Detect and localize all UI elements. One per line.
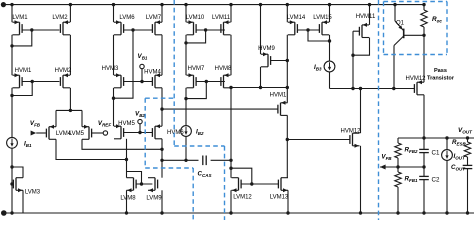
wire HVM7 drain to IB2 — [185, 99, 187, 126]
boundary Q1 box top — [384, 1, 448, 3]
wire LVM3 drain loop — [10, 165, 23, 177]
transistor LVM10 — [186, 15, 205, 35]
wire LVM4 source — [55, 110, 57, 126]
wire HVM6 source — [161, 109, 163, 126]
wire Q1 emitter — [394, 5, 396, 21]
wire LVM8 source to gnd — [125, 190, 128, 214]
svg-text:LVM9: LVM9 — [146, 196, 162, 202]
wire LVM5 source — [81, 110, 83, 126]
svg-text:CCAS: CCAS — [198, 171, 212, 178]
svg-text:LVM11: LVM11 — [212, 15, 231, 21]
wire HVM5 drain — [126, 139, 128, 160]
wire second stage line — [162, 108, 278, 110]
transistor HVM3 — [102, 66, 124, 88]
transistor HVM2 — [55, 68, 72, 88]
svg-text:LVM1: LVM1 — [12, 15, 28, 21]
wire LVM10 drain to HVM7 — [185, 35, 187, 75]
resistor Roc — [421, 5, 443, 36]
wire HVM12 source to gnd — [359, 146, 362, 215]
transistor LVM2 — [52, 15, 70, 35]
transistor HVM12 — [340, 129, 361, 148]
wire LVM5 gate to VREF — [92, 132, 104, 134]
wire HVM7 gate-drain tie — [186, 82, 206, 99]
svg-text:VB2: VB2 — [135, 111, 145, 118]
svg-text:HVM1: HVM1 — [15, 68, 32, 74]
wire LVM11 drain to HVM8 — [230, 35, 232, 75]
svg-text:VOUT: VOUT — [458, 127, 473, 134]
wire LVM5 drain W_A — [82, 139, 164, 151]
resistor RFB2 — [395, 138, 418, 167]
svg-text:HVM11: HVM11 — [356, 14, 376, 20]
wire LVM15 source — [329, 5, 331, 23]
svg-text:Transistor: Transistor — [427, 76, 455, 82]
wire HVM1-HVM2 gate wire — [22, 81, 59, 83]
wire LVM3 source to gnd — [22, 190, 24, 213]
svg-text:HVM8: HVM8 — [215, 66, 232, 72]
svg-text:LVM6: LVM6 — [119, 15, 135, 21]
transistor LVM15 — [313, 15, 332, 35]
svg-text:C2: C2 — [432, 177, 440, 184]
boundary Q1 box left — [383, 2, 385, 55]
node LVM1 source tap — [10, 3, 13, 6]
boundary Q1 box bottom — [384, 54, 448, 56]
wire VOUT rail — [398, 136, 474, 139]
transistor HVM11 — [356, 14, 376, 38]
capacitor C2 — [419, 167, 440, 215]
svg-text:HVM7: HVM7 — [188, 66, 205, 72]
boundary output stage separator — [378, 0, 380, 220]
svg-text:HVM12: HVM12 — [405, 76, 426, 82]
boundary second stage right — [224, 146, 226, 220]
label VOUT — [458, 127, 473, 134]
node Q1 emitter tap — [393, 3, 396, 6]
wire VIN top supply rail — [1, 2, 425, 7]
resistor RFB1 — [395, 167, 418, 215]
svg-text:Roc: Roc — [432, 16, 442, 23]
wire VFB to LVM4 gate — [36, 132, 46, 134]
boundary first stage drop — [192, 168, 194, 220]
node LVM7 source tap — [160, 3, 163, 6]
resistor RESR — [452, 138, 471, 157]
transistor LVM9 — [146, 178, 162, 202]
wire HVM11 source — [369, 5, 371, 25]
wire VB1 stem — [140, 69, 143, 84]
wire HVM5-HVM6 gate wire — [124, 132, 153, 134]
wire LVM7 source — [161, 5, 163, 23]
svg-text:LVM12: LVM12 — [233, 195, 252, 201]
transistor LVM11 — [212, 15, 231, 35]
svg-text:LVM7: LVM7 — [146, 15, 162, 21]
current source IB1 — [7, 137, 32, 148]
wire HVM7 drain — [184, 88, 187, 101]
wire mirror gate riser — [114, 30, 134, 98]
wire LVM3 gate tap — [10, 182, 13, 185]
svg-text:LVM10: LVM10 — [186, 15, 205, 21]
wire LVM8 drain — [126, 160, 128, 178]
wire LVM6 source — [113, 5, 115, 23]
boundary first stage right — [173, 0, 175, 146]
wire HVM10 drain to LVM13 drain — [286, 140, 288, 178]
wire HVM1 drain to IB1 — [11, 96, 13, 138]
wire LVM6 drain to HVM3 — [113, 35, 115, 75]
node HVM9 source tap — [259, 3, 262, 6]
wire LVM4 drain W_B — [56, 139, 128, 161]
wire HVM11 gate down — [351, 31, 354, 88]
transistor Q1 — [394, 21, 405, 46]
node LVM10 source tap — [184, 3, 187, 6]
svg-text:LVM13: LVM13 — [270, 195, 289, 201]
node LVM2 source tap — [69, 3, 72, 6]
wire LVM10 source — [185, 5, 187, 23]
capacitor COUT — [451, 157, 472, 215]
wire LVM12 drain — [230, 168, 232, 178]
wire LVM1 gate-drain loop — [12, 28, 34, 46]
svg-text:IB3: IB3 — [314, 64, 322, 71]
wire LVM1 source — [11, 5, 13, 23]
wire LVM15 gate-drain loop — [308, 30, 331, 43]
wire pass drain to VOUT — [422, 95, 425, 140]
wire LVM15 drain — [329, 35, 331, 41]
capacitor CCAS — [198, 156, 212, 178]
wire HVM9 gate — [271, 59, 289, 62]
svg-text:LVM2: LVM2 — [52, 15, 68, 21]
transistor LVM7 — [146, 15, 162, 35]
wire CCAS left — [162, 159, 199, 161]
wire HVM1 drain — [10, 88, 13, 97]
node HVM11 source tap — [368, 3, 371, 6]
transistor HVM12 pass — [405, 68, 454, 95]
svg-text:IB2: IB2 — [196, 129, 204, 136]
svg-text:VB1: VB1 — [138, 53, 148, 60]
svg-text:RFB2: RFB2 — [405, 147, 418, 154]
node LVM14 source tap — [286, 3, 289, 6]
boundary first stage notch left — [144, 98, 146, 168]
wire LVM12 diode loop — [231, 168, 254, 186]
wire LVM14-LVM15 gate wire — [297, 28, 319, 31]
current source IB2 — [181, 126, 204, 137]
boundary Q1 box right — [446, 2, 448, 55]
node Roc rail tap — [422, 3, 425, 6]
wire IB3 to gate node — [329, 72, 331, 89]
svg-text:RESR: RESR — [452, 139, 466, 146]
transistor LVM12 — [232, 178, 253, 201]
transistor LVM5 — [69, 125, 92, 140]
wire Q1 collector — [393, 46, 395, 89]
wire LVM12-LVM13 gate wire — [241, 183, 278, 185]
wire HVM6 drain — [160, 139, 163, 162]
transistor HVM1 — [13, 68, 32, 88]
wire line A — [231, 86, 289, 89]
node LVM15 source tap — [328, 3, 331, 6]
wire diff pair tail — [56, 109, 82, 111]
svg-text:HVM2: HVM2 — [55, 68, 72, 74]
wire LVM2 source — [69, 5, 71, 23]
svg-text:IB1: IB1 — [24, 141, 32, 148]
boundary first stage notch top — [145, 97, 174, 99]
wire LVM8 gate-drain tie — [127, 172, 142, 185]
transistor HVM10 — [270, 93, 288, 116]
svg-text:LVM8: LVM8 — [120, 196, 136, 202]
svg-text:HVM9: HVM9 — [258, 46, 275, 52]
wire LVM9 drain — [161, 160, 163, 177]
svg-text:C1: C1 — [432, 150, 440, 157]
transistor LVM13 — [270, 178, 289, 201]
svg-text:Pass: Pass — [434, 68, 447, 74]
svg-text:VFB: VFB — [30, 120, 41, 127]
wire LVM7 drain to HVM4 — [161, 35, 163, 75]
wire pass source — [423, 35, 425, 82]
current source IB3 — [314, 61, 335, 72]
wire LVM6-LVM7 gate wire — [124, 28, 153, 31]
wire LVM10 gate loop — [184, 28, 207, 44]
wire HVM11 drain loop — [353, 38, 370, 56]
transistor LVM4 — [46, 125, 71, 140]
wire LVM10-LVM11 gate wire — [196, 29, 225, 31]
transistor LVM1 — [12, 15, 28, 35]
wire HVM8 drain down — [229, 86, 232, 170]
wire HVM10 drain down — [286, 115, 289, 141]
node feedback — [396, 165, 399, 168]
wire IB1 to ground — [10, 148, 13, 215]
transistor HVM5 — [114, 121, 135, 139]
input VFB left terminal — [30, 120, 41, 136]
wire VFB feedback — [380, 165, 426, 168]
wire Q1 base — [404, 34, 426, 37]
wire LVM1 drain — [10, 35, 13, 48]
wire LVM11 source — [230, 5, 232, 23]
wire LVM15 drain to IB3 — [329, 41, 331, 61]
svg-text:IOUT: IOUT — [454, 153, 466, 160]
wire HVM9 drain — [259, 67, 262, 89]
wire LVM9 source to gnd — [160, 190, 163, 214]
wire HVM1 source — [11, 46, 13, 75]
transistor LVM6 — [114, 15, 135, 35]
node LVM6 source tap — [112, 3, 115, 6]
transistor LVM3 — [13, 178, 40, 196]
wire CCAS right — [211, 159, 233, 162]
svg-text:Q1: Q1 — [396, 21, 405, 27]
svg-text:LVM5: LVM5 — [69, 131, 85, 137]
transistor HVM9 — [258, 46, 275, 67]
svg-text:VREF: VREF — [98, 120, 111, 127]
svg-text:HVM4: HVM4 — [144, 70, 161, 76]
terminal VB2 — [135, 111, 145, 124]
wire pass gate line — [330, 87, 415, 90]
transistor LVM14 — [287, 15, 306, 35]
wire LVM14 drain down — [286, 35, 288, 88]
wire LVM1-LVM2 gate wire — [22, 29, 59, 31]
wire LVM2 drain to HVM2 — [69, 35, 71, 75]
transistor HVM7 — [187, 66, 205, 88]
terminal VREF — [98, 120, 111, 135]
svg-text:HVM5: HVM5 — [118, 121, 135, 127]
wire HVM2 drain to tail — [69, 88, 72, 112]
transistor LVM8 — [120, 178, 136, 202]
wire HVM12 gate wire — [287, 139, 350, 141]
wire HVM4 drain — [160, 88, 163, 111]
wire HVM10 source — [286, 88, 288, 103]
node LVM11 source tap — [229, 3, 232, 6]
current source IOUT — [442, 138, 466, 215]
transistor HVM6 — [152, 124, 184, 139]
svg-text:HVM1: HVM1 — [270, 93, 287, 99]
wire GND bottom rail — [1, 210, 474, 216]
wire LVM13 source to gnd — [286, 190, 289, 214]
svg-text:HVM3: HVM3 — [102, 66, 119, 72]
node IB2 bottom tap — [184, 159, 187, 162]
wire HVM1 gate-drain loop — [12, 80, 34, 96]
transistor HVM8 — [215, 66, 232, 88]
svg-text:LVM3: LVM3 — [25, 190, 41, 196]
wire VB2 stem — [138, 124, 141, 134]
wire HVM9 source — [260, 5, 262, 55]
wire HVM7-HVM8 gate wire — [196, 80, 225, 83]
input VFB right arrow — [380, 154, 392, 170]
svg-text:HVM12: HVM12 — [340, 129, 361, 135]
wire HVM3-HVM4 gate wire — [124, 81, 153, 83]
boundary first stage bottom — [145, 167, 193, 169]
svg-text:RFB1: RFB1 — [405, 176, 418, 183]
wire LVM8-LVM9 gate wire — [136, 182, 152, 185]
transistor HVM4 — [144, 70, 162, 88]
wire IB2 to CCAS wire — [185, 136, 187, 160]
capacitor C1 — [419, 138, 440, 167]
wire HVM11 gate lead — [353, 30, 359, 32]
wire HVM3 drain node — [112, 88, 115, 100]
terminal VB1 — [138, 53, 148, 69]
wire LVM14 source — [286, 5, 288, 23]
wire HVM12 drain up — [360, 89, 362, 134]
wire LVM12 source to gnd — [229, 190, 232, 214]
svg-text:LVM14: LVM14 — [287, 15, 306, 21]
wire HVM3 drain to HVM5 — [113, 98, 115, 126]
svg-text:VFB: VFB — [381, 154, 392, 161]
boundary second stage top — [174, 145, 224, 147]
